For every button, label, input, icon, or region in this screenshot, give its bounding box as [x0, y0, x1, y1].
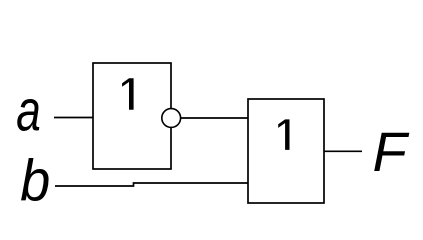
gate U2 body — [248, 99, 324, 203]
NOT gate U1 body — [93, 63, 171, 169]
NOT gate U1 label 1 — [122, 78, 134, 109]
wire a to NOT gate — [54, 117, 93, 119]
inversion bubble on U1 output — [162, 109, 181, 128]
output wire from U2 — [324, 150, 362, 152]
svg-text:a: a — [16, 78, 41, 143]
wire b to gate U2 (with jog) — [55, 183, 248, 186]
svg-text:F: F — [373, 120, 410, 183]
gate U2 label 1 — [278, 119, 289, 149]
svg-text:b: b — [20, 148, 50, 213]
wire bubble to gate U2 — [180, 117, 248, 119]
